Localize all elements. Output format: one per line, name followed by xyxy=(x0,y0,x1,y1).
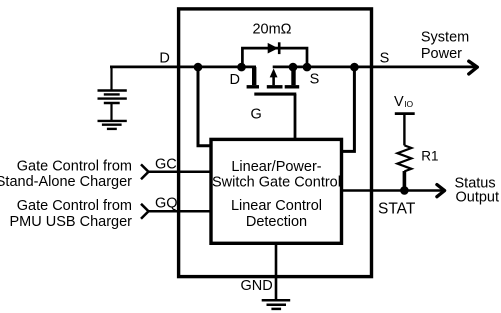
svg-text:S: S xyxy=(310,71,320,87)
svg-text:D: D xyxy=(159,51,169,67)
node drain junction xyxy=(237,63,246,72)
battery B1 xyxy=(98,66,127,121)
svg-text:Switch Gate Control: Switch Gate Control xyxy=(212,174,341,190)
svg-text:Linear/Power-: Linear/Power- xyxy=(231,159,321,175)
diode D1 symbol xyxy=(268,42,280,54)
wire source rail to System Power xyxy=(273,66,477,69)
svg-text:Linear Control: Linear Control xyxy=(231,198,322,214)
ground (GND pin) xyxy=(262,300,291,309)
node S-branch junction xyxy=(350,63,359,72)
node D junction xyxy=(194,63,203,72)
body diode D1 loop xyxy=(242,48,307,67)
transistor Q1 power MOSFET xyxy=(247,67,300,94)
resistor R1 lower stem xyxy=(403,171,407,190)
svg-text:S: S xyxy=(380,51,390,67)
wire GC xyxy=(149,171,212,174)
svg-text:Stand-Alone Charger: Stand-Alone Charger xyxy=(0,174,132,190)
ground (battery) xyxy=(98,121,127,129)
control block U1 xyxy=(211,139,342,243)
IC outline box xyxy=(179,9,372,277)
supply VIO xyxy=(395,114,415,146)
input terminal GC xyxy=(141,164,149,179)
Q1 drain stub xyxy=(252,67,256,85)
Q1 body arrow xyxy=(272,76,275,86)
svg-text:STAT: STAT xyxy=(378,200,416,217)
node STAT junction xyxy=(400,186,409,195)
wire GQ xyxy=(149,210,212,213)
Q1 drain contact bar xyxy=(247,85,259,88)
wire S branch to control block xyxy=(342,67,355,151)
svg-text:Output: Output xyxy=(456,190,500,206)
svg-text:Detection: Detection xyxy=(246,214,307,230)
wire D branch to control block xyxy=(198,67,211,146)
Q1 gate bar xyxy=(254,93,296,96)
wire STAT output xyxy=(342,189,444,192)
svg-text:G: G xyxy=(251,106,262,122)
svg-text:V: V xyxy=(394,94,404,110)
Q1 middle contact bar xyxy=(267,85,283,88)
svg-text:IO: IO xyxy=(404,99,413,109)
node diode cathode junction xyxy=(303,63,312,72)
Q1 source stub xyxy=(291,67,295,85)
arrow Status Output xyxy=(437,185,445,197)
arrow System Power xyxy=(469,61,478,74)
svg-text:Power: Power xyxy=(421,46,462,62)
svg-text:20mΩ: 20mΩ xyxy=(252,21,291,37)
svg-text:D: D xyxy=(230,72,240,88)
svg-text:Gate Control from: Gate Control from xyxy=(17,198,132,214)
svg-text:R1: R1 xyxy=(421,149,438,164)
resistor R1 xyxy=(397,145,411,171)
svg-text:Gate Control from: Gate Control from xyxy=(17,159,132,175)
wire battery to drain rail xyxy=(110,66,256,69)
svg-text:GQ: GQ xyxy=(155,196,178,212)
Q1 source contact bar xyxy=(285,85,300,88)
svg-text:GND: GND xyxy=(241,278,273,294)
svg-text:PMU USB Charger: PMU USB Charger xyxy=(10,214,133,230)
wire GND xyxy=(275,243,278,299)
input terminal GQ xyxy=(141,204,149,219)
node source junction xyxy=(289,63,298,72)
svg-text:System: System xyxy=(421,30,469,46)
svg-text:GC: GC xyxy=(155,156,177,172)
wire gate to control block xyxy=(294,94,297,139)
